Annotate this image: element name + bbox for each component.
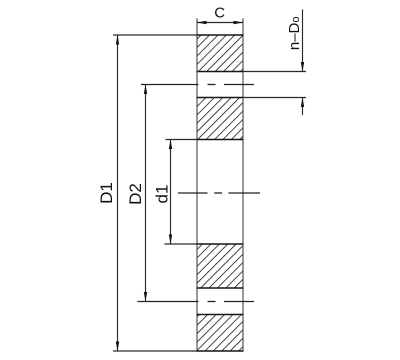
svg-text:C: C (214, 5, 225, 22)
svg-text:d1: d1 (153, 185, 172, 204)
svg-text:D2: D2 (126, 183, 145, 205)
svg-text:D1: D1 (97, 182, 116, 204)
